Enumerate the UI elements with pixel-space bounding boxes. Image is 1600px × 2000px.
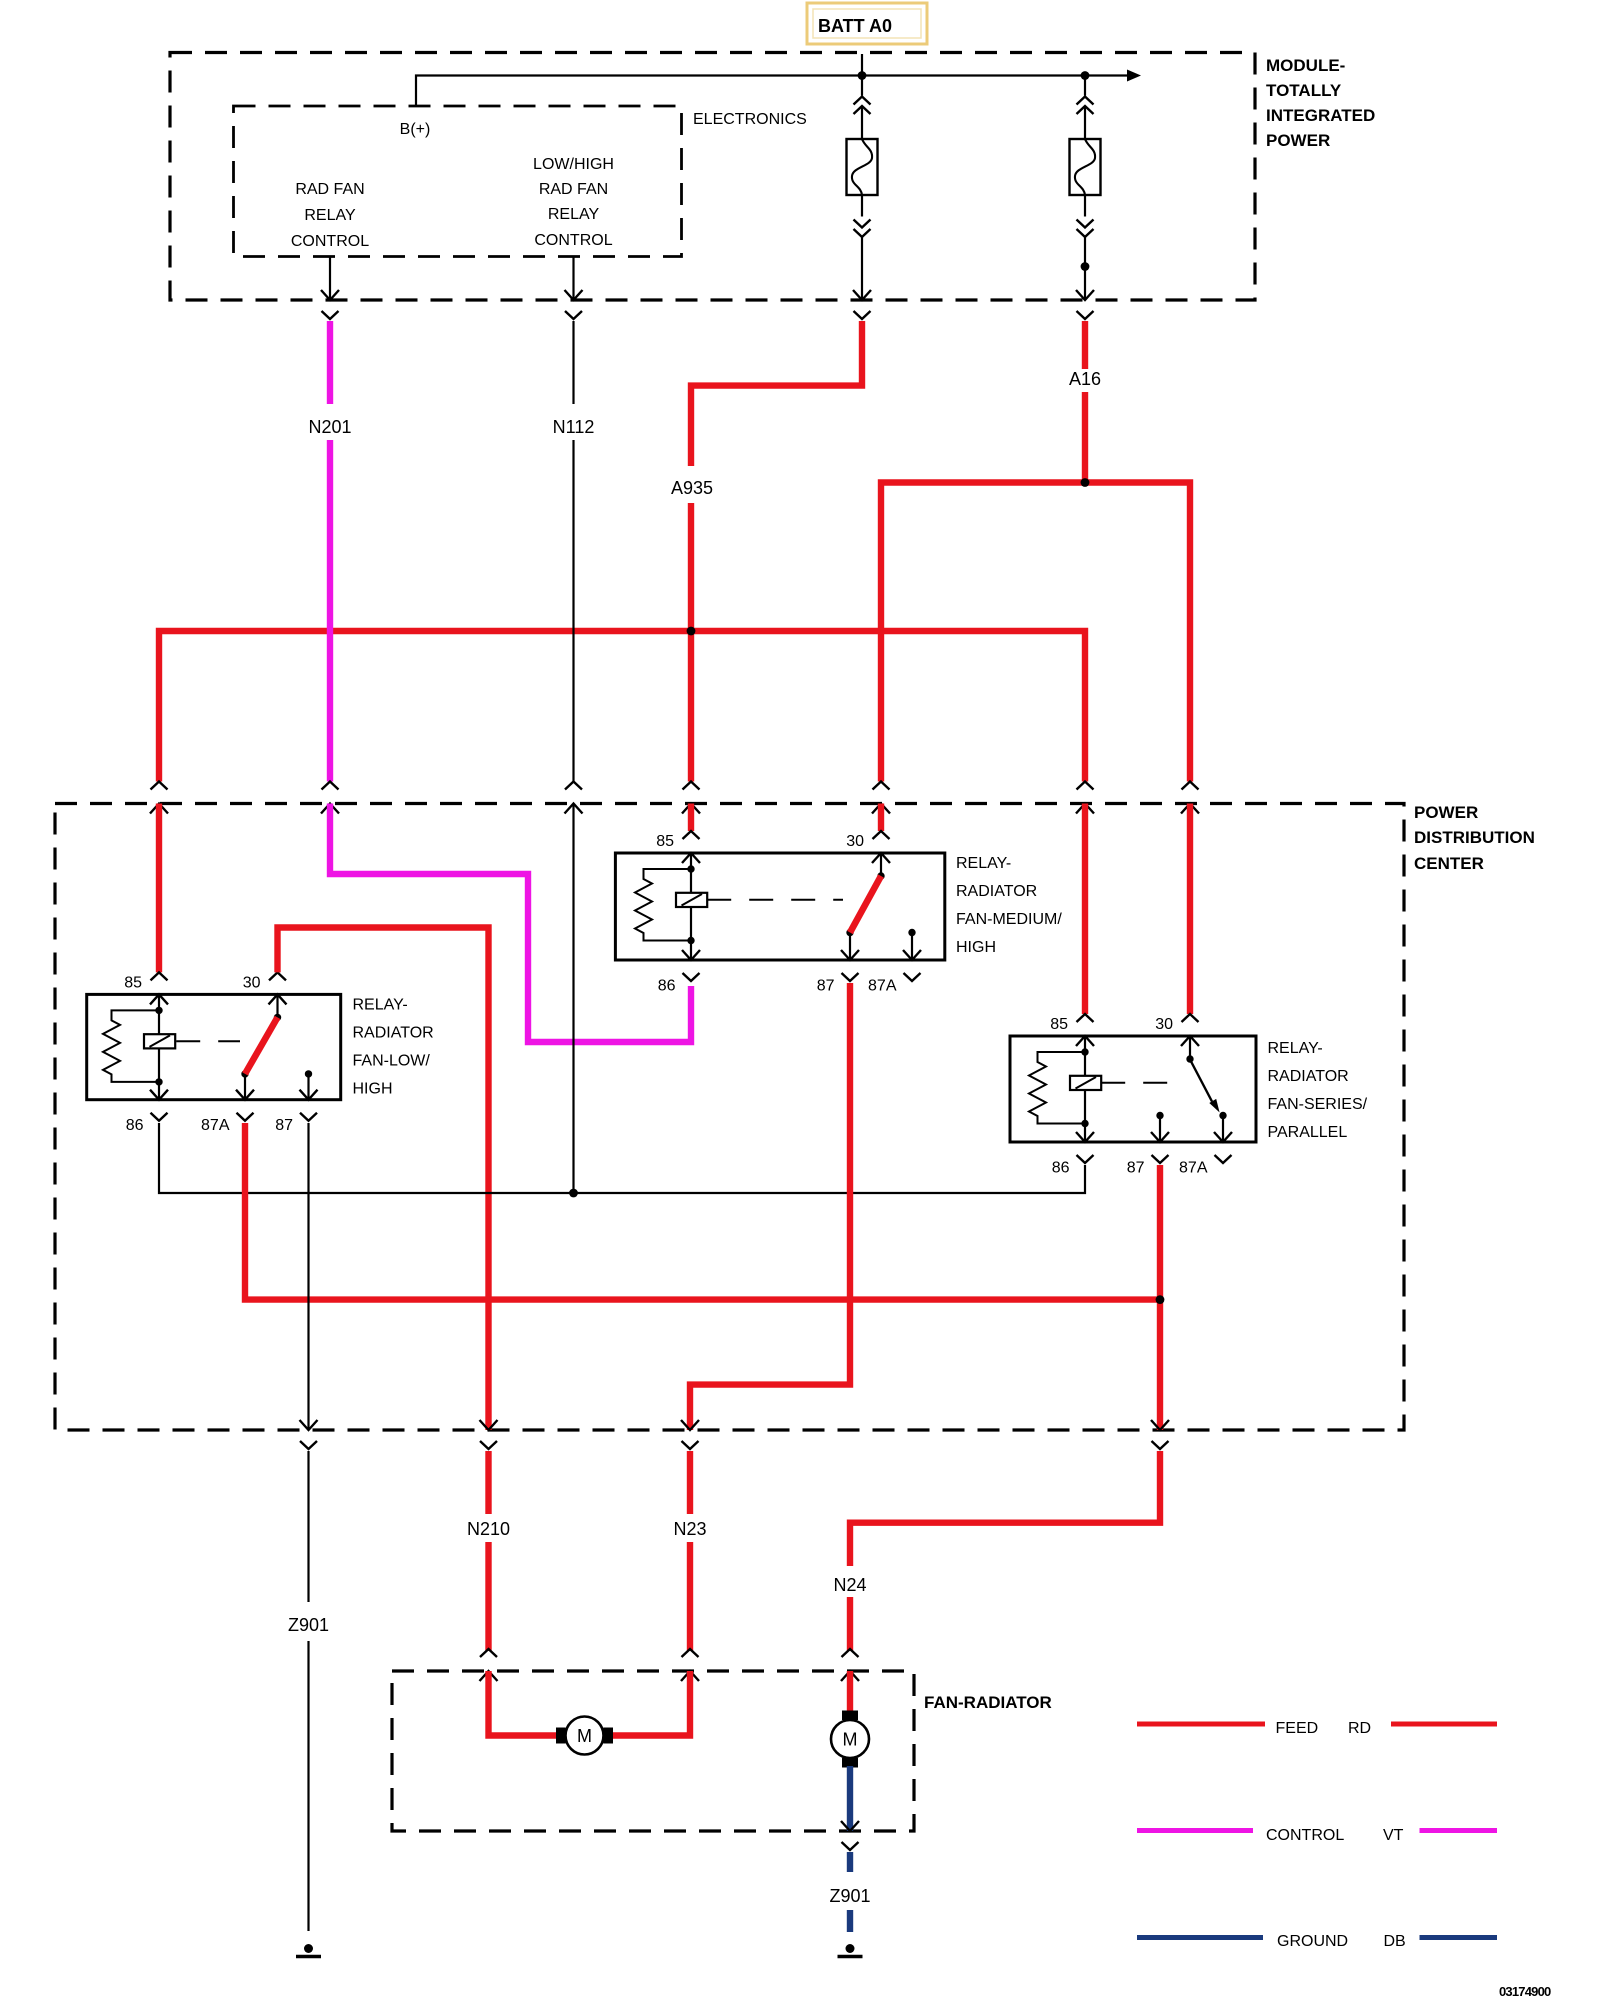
wire: relay2-87 to N23 exit (red) <box>690 983 850 1430</box>
svg-text:RAD FAN: RAD FAN <box>539 181 608 198</box>
label A935 <box>671 478 713 498</box>
svg-text:RELAY: RELAY <box>304 207 356 224</box>
svg-text:BATT A0: BATT A0 <box>818 16 892 36</box>
label RELAY-RADIATOR FAN-SERIES/PARALLEL <box>1268 1040 1368 1141</box>
svg-text:CONTROL: CONTROL <box>291 233 369 250</box>
relay3 pin 86 <box>1052 1155 1094 1177</box>
wire A935 feed (red) fuse1 to relay2 coil <box>691 321 862 782</box>
relay: radiator fan low/high <box>87 994 341 1099</box>
connector: N23 exit at PDC bottom edge <box>681 1420 699 1449</box>
label Z901 left <box>288 1615 329 1635</box>
connector: A16 exit at module bottom edge <box>1076 290 1094 319</box>
svg-text:RELAY-: RELAY- <box>956 855 1011 872</box>
wire N210 below PDC (red) <box>485 1451 491 1651</box>
svg-text:A935: A935 <box>671 478 713 498</box>
wire: low/high rad fan relay control drop <box>572 257 574 301</box>
label MODULE-TOTALLY INTEGRATED POWER <box>1266 56 1375 150</box>
relay1 pin 85 <box>124 972 167 991</box>
svg-text:RADIATOR: RADIATOR <box>956 883 1037 900</box>
relay2 pin 87 <box>817 973 859 995</box>
svg-text:30: 30 <box>1155 1016 1173 1033</box>
wire N112 inside PDC (black) <box>572 804 574 1194</box>
connector: N112 entry at PDC top edge <box>565 782 583 814</box>
svg-text:MODULE-: MODULE- <box>1266 56 1345 75</box>
relay: radiator fan medium/high <box>615 853 944 960</box>
wire N201 inside PDC to relay2-86 (violet) <box>330 804 691 1043</box>
wire: red branch y=631 to relay1-85 and relay3-85 <box>159 631 1085 782</box>
relay3 pin 87 <box>1127 1155 1169 1177</box>
svg-text:M: M <box>843 1730 858 1750</box>
wire N23 below PDC (red) <box>687 1451 693 1651</box>
label RELAY-RADIATOR FAN-LOW/HIGH <box>353 997 434 1098</box>
label B(+) <box>400 121 431 138</box>
relay1 pin 86 <box>126 1113 168 1135</box>
svg-text:POWER: POWER <box>1266 131 1330 150</box>
wire Z901 left (black) <box>307 1451 309 1931</box>
relay2 pin 85 <box>656 831 699 850</box>
fan-radiator box <box>392 1671 914 1831</box>
wire N24 below PDC (red) <box>850 1451 1160 1651</box>
relay2 pin 87A <box>868 973 920 995</box>
label RAD FAN RELAY CONTROL <box>291 181 369 250</box>
label RELAY-RADIATOR FAN-MEDIUM/HIGH <box>956 855 1062 956</box>
legend: control VT <box>1137 1827 1497 1844</box>
label A16 <box>1069 369 1101 389</box>
connector: relay1-85 feed entry at PDC top edge <box>150 782 168 814</box>
wire A16 feed (red) fuse2 down <box>1082 321 1088 483</box>
svg-text:RELAY-: RELAY- <box>353 997 408 1014</box>
svg-text:B(+): B(+) <box>400 121 431 138</box>
connector: Z901 exit at PDC bottom edge <box>300 1420 318 1449</box>
relay2 pin 86 <box>658 973 700 995</box>
svg-text:M: M <box>577 1726 592 1746</box>
svg-text:FAN-SERIES/: FAN-SERIES/ <box>1268 1096 1368 1113</box>
wire: B(+) bus <box>416 70 1141 107</box>
wire N201 (violet control) <box>327 321 333 782</box>
svg-text:87A: 87A <box>868 978 897 995</box>
svg-text:RELAY-: RELAY- <box>1268 1040 1323 1057</box>
svg-text:N24: N24 <box>833 1575 866 1595</box>
svg-text:LOW/HIGH: LOW/HIGH <box>533 156 614 173</box>
svg-text:87A: 87A <box>1179 1160 1208 1177</box>
relay3 pin 30 <box>1155 1014 1198 1033</box>
wire Z901 right below fan box (dark blue) <box>847 1852 853 1932</box>
svg-text:30: 30 <box>846 833 864 850</box>
node: bus junction at fuse 1 <box>858 71 867 80</box>
relay3 pin 87A <box>1179 1155 1231 1177</box>
svg-text:N210: N210 <box>467 1519 510 1539</box>
svg-text:85: 85 <box>124 974 142 991</box>
wire: relay1-87A jumper to N24 node (red) <box>245 1123 1160 1300</box>
svg-text:03174900: 03174900 <box>1499 1984 1551 1999</box>
svg-text:RELAY: RELAY <box>548 206 600 223</box>
svg-text:TOTALLY: TOTALLY <box>1266 81 1342 100</box>
relay1 pin 30 <box>243 972 286 991</box>
svg-text:N201: N201 <box>308 417 351 437</box>
svg-text:RAD FAN: RAD FAN <box>295 181 364 198</box>
svg-text:RADIATOR: RADIATOR <box>1268 1068 1349 1085</box>
label LOW/HIGH RAD FAN RELAY CONTROL <box>533 156 614 249</box>
svg-text:ELECTRONICS: ELECTRONICS <box>693 111 807 128</box>
svg-text:N23: N23 <box>673 1519 706 1539</box>
relay2 pin 30 <box>846 831 889 850</box>
relay3 pin 85 <box>1050 1014 1093 1033</box>
wire N112 (control, black) <box>572 321 574 782</box>
connector: N112 exit at module bottom edge <box>565 290 583 319</box>
electronics module box <box>234 106 682 257</box>
ground G1 <box>296 1944 321 1957</box>
svg-text:PARALLEL: PARALLEL <box>1268 1124 1348 1141</box>
label ELECTRONICS <box>693 111 807 128</box>
wire: red branch y=482 to relay2-30 and relay3-30 <box>881 483 1190 782</box>
svg-text:INTEGRATED: INTEGRATED <box>1266 106 1375 125</box>
battery feed tag BATT A0 <box>807 3 927 44</box>
svg-text:87: 87 <box>817 978 835 995</box>
svg-text:FAN-MEDIUM/: FAN-MEDIUM/ <box>956 911 1062 928</box>
node: junction relay1-87A / relay3-87 <box>1156 1295 1165 1304</box>
wire: relay1-85 feed inside PDC <box>156 804 162 973</box>
label N23 <box>673 1519 706 1539</box>
wire: N24 to motor2 (red) <box>847 1671 853 1711</box>
label N112 <box>553 417 595 437</box>
connector: N24 exit at PDC bottom edge <box>1151 1420 1169 1449</box>
svg-text:RD: RD <box>1348 1720 1371 1737</box>
connector: A935 exit at module bottom edge <box>853 290 871 319</box>
svg-text:CONTROL: CONTROL <box>534 232 612 249</box>
connector: fan box exit bottom <box>841 1821 859 1850</box>
svg-text:DB: DB <box>1384 1933 1406 1950</box>
legend: feed RD <box>1137 1720 1497 1737</box>
wire: relay2-85 feed inside PDC <box>688 804 694 832</box>
connector: N24 entry at fan box top edge <box>841 1649 859 1681</box>
connector: N210 exit at PDC bottom edge <box>480 1420 498 1449</box>
svg-text:Z901: Z901 <box>288 1615 329 1635</box>
node: junction A16 branch <box>1081 478 1090 487</box>
svg-text:FAN-LOW/: FAN-LOW/ <box>353 1053 431 1070</box>
ground G2 <box>838 1944 863 1957</box>
svg-text:HIGH: HIGH <box>353 1081 393 1098</box>
connector: N201 entry at PDC top edge <box>321 782 339 814</box>
connector: relay3-85 feed entry at PDC top edge <box>1076 782 1094 814</box>
connector: N201 exit at module bottom edge <box>321 290 339 319</box>
wire: motor1 to N23 (red) <box>613 1671 690 1736</box>
svg-text:86: 86 <box>658 978 676 995</box>
legend: ground DB <box>1137 1933 1497 1950</box>
label POWER DISTRIBUTION CENTER <box>1414 803 1535 873</box>
svg-text:87: 87 <box>1127 1160 1145 1177</box>
wire: relay1-87 to Z901 exit (black) <box>307 1123 309 1430</box>
svg-text:A16: A16 <box>1069 369 1101 389</box>
connector: relay2-30 feed entry at PDC top edge <box>872 782 890 814</box>
svg-text:86: 86 <box>126 1117 144 1134</box>
svg-text:N112: N112 <box>553 417 595 437</box>
node: junction A935 at y=631 <box>687 627 696 636</box>
svg-text:30: 30 <box>243 974 261 991</box>
svg-text:86: 86 <box>1052 1160 1070 1177</box>
module box: totally integrated power module <box>170 53 1255 301</box>
svg-text:HIGH: HIGH <box>956 939 996 956</box>
wire: relay3-30 feed inside PDC <box>1187 804 1193 1015</box>
relay1 pin 87 <box>275 1113 317 1135</box>
relay: radiator fan series/parallel <box>1010 1036 1256 1142</box>
svg-text:POWER: POWER <box>1414 803 1478 822</box>
wire: coil ground net relay1-86/N112/relay3-86 (black) <box>159 1123 1085 1193</box>
svg-text:85: 85 <box>1050 1016 1068 1033</box>
wire: relay3-85 feed inside PDC <box>1082 804 1088 1015</box>
wire: N210 to motor1 (red) <box>489 1671 557 1736</box>
wire: motor2 to ground Z901 (dark blue) <box>847 1766 853 1831</box>
svg-text:VT: VT <box>1383 1827 1404 1844</box>
svg-text:87: 87 <box>275 1117 293 1134</box>
svg-text:87A: 87A <box>201 1117 230 1134</box>
sheet number 03174900 <box>1499 1984 1551 1999</box>
svg-text:CONTROL: CONTROL <box>1266 1827 1344 1844</box>
wire: relay2-30 feed inside PDC <box>878 804 884 832</box>
connector: A935 entry at PDC top edge <box>682 782 700 814</box>
connector: relay3-30 feed entry at PDC top edge <box>1181 782 1199 814</box>
svg-text:CENTER: CENTER <box>1414 854 1484 873</box>
wire: BATT A0 drop <box>861 54 863 76</box>
wire N210: relay1-30 to PDC bottom (red) <box>278 928 489 1431</box>
wire: rad fan relay control drop <box>329 257 331 301</box>
motor M2: radiator fan motor <box>831 1711 869 1768</box>
node: bus junction at fuse 2 <box>1081 71 1090 80</box>
node: junction below fuse 2 <box>1081 262 1090 271</box>
label N24 <box>833 1575 866 1595</box>
label N201 <box>308 417 351 437</box>
node: ground net junction with N112 <box>569 1189 578 1198</box>
label Z901 right <box>829 1886 870 1906</box>
wire: relay3-87 to PDC bottom / N24 (red) <box>1157 1165 1163 1430</box>
fuse F2 (A16 feed) <box>1070 76 1101 301</box>
label N210 <box>467 1519 510 1539</box>
motor M1: radiator fan motor <box>556 1717 613 1755</box>
svg-text:FAN-RADIATOR: FAN-RADIATOR <box>924 1693 1052 1712</box>
power distribution center box <box>55 804 1404 1431</box>
connector: N23 entry at fan box top edge <box>681 1649 699 1681</box>
svg-text:Z901: Z901 <box>829 1886 870 1906</box>
svg-text:GROUND: GROUND <box>1277 1933 1348 1950</box>
svg-text:RADIATOR: RADIATOR <box>353 1025 434 1042</box>
svg-text:FEED: FEED <box>1276 1720 1319 1737</box>
svg-text:85: 85 <box>656 833 674 850</box>
connector: N210 entry at fan box top edge <box>480 1649 498 1681</box>
fuse F1 (electronics feed) <box>847 76 878 301</box>
svg-text:DISTRIBUTION: DISTRIBUTION <box>1414 828 1535 847</box>
label FAN-RADIATOR <box>924 1693 1052 1712</box>
relay1 pin 87A <box>201 1113 253 1135</box>
